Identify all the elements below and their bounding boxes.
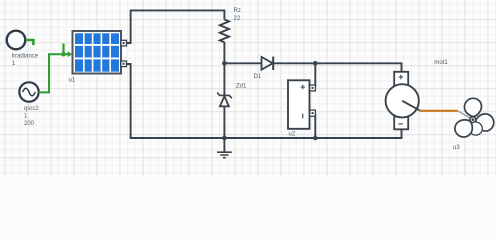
pin - (bottom right port of u1) xyxy=(121,61,127,67)
wire green from qsrc2 to solar panel input xyxy=(39,51,73,92)
resistor Rz xyxy=(220,20,229,43)
svg-text:200: 200 xyxy=(24,121,35,127)
wire green stub from Irradiance xyxy=(26,40,34,45)
wire green dangling stub up at panel input node xyxy=(62,44,64,55)
fan blade SW xyxy=(452,116,477,141)
wire from diode D1 to node B xyxy=(273,62,315,64)
junction zener to bottom rail xyxy=(222,136,227,141)
wire from node A to diode D1 xyxy=(224,62,261,64)
wire battery bottom port to rail xyxy=(314,114,316,138)
fan hub xyxy=(470,117,476,123)
svg-text:u3: u3 xyxy=(453,145,460,151)
irradiance source Irradiance xyxy=(7,31,26,50)
svg-text:u2: u2 xyxy=(289,132,296,138)
pin + (top right port of u2) xyxy=(310,85,316,91)
fan blade E xyxy=(474,112,496,133)
svg-text:Rz: Rz xyxy=(234,8,241,14)
wire from node B down to battery + port xyxy=(314,63,316,87)
svg-text:D1: D1 xyxy=(254,74,262,80)
wire from u1 top port up and right to resistor Rz xyxy=(127,10,225,43)
junction node B (diode / battery / motor) xyxy=(313,61,318,66)
wire from node B right and down to motor + terminal xyxy=(315,63,401,72)
junction green node at panel input xyxy=(61,52,66,57)
svg-text:u1: u1 xyxy=(69,78,76,84)
solar panel u1 xyxy=(73,31,122,74)
wire bottom rail xyxy=(127,64,402,138)
svg-text:qsrc2: qsrc2 xyxy=(24,106,39,112)
motor mot1 xyxy=(386,72,420,130)
svg-text:mot1: mot1 xyxy=(434,60,448,66)
junction node A (resistor / diode / zener) xyxy=(222,61,227,66)
fan u3 xyxy=(452,98,496,141)
fan blade N xyxy=(464,98,482,117)
pin - (bottom right port of u2) xyxy=(310,110,316,116)
battery u2 xyxy=(288,80,310,129)
svg-text:Zd1: Zd1 xyxy=(236,84,247,90)
svg-text:Irradiance: Irradiance xyxy=(12,54,39,60)
pin + (top right port of u1) xyxy=(121,40,127,46)
ground xyxy=(217,138,232,158)
junction battery to bottom rail xyxy=(313,136,318,141)
diode D1 xyxy=(262,57,274,70)
wire from resistor Rz down to node A xyxy=(223,42,225,63)
fan blade S (small, foreshortened) xyxy=(468,120,484,137)
voltage source qsrc2 xyxy=(19,82,38,101)
zener diode Zd1 xyxy=(217,63,232,138)
wire orange motor shaft to fan xyxy=(420,110,458,112)
wire thin shaft link to fan hub xyxy=(458,111,473,120)
svg-text:22: 22 xyxy=(234,16,241,22)
